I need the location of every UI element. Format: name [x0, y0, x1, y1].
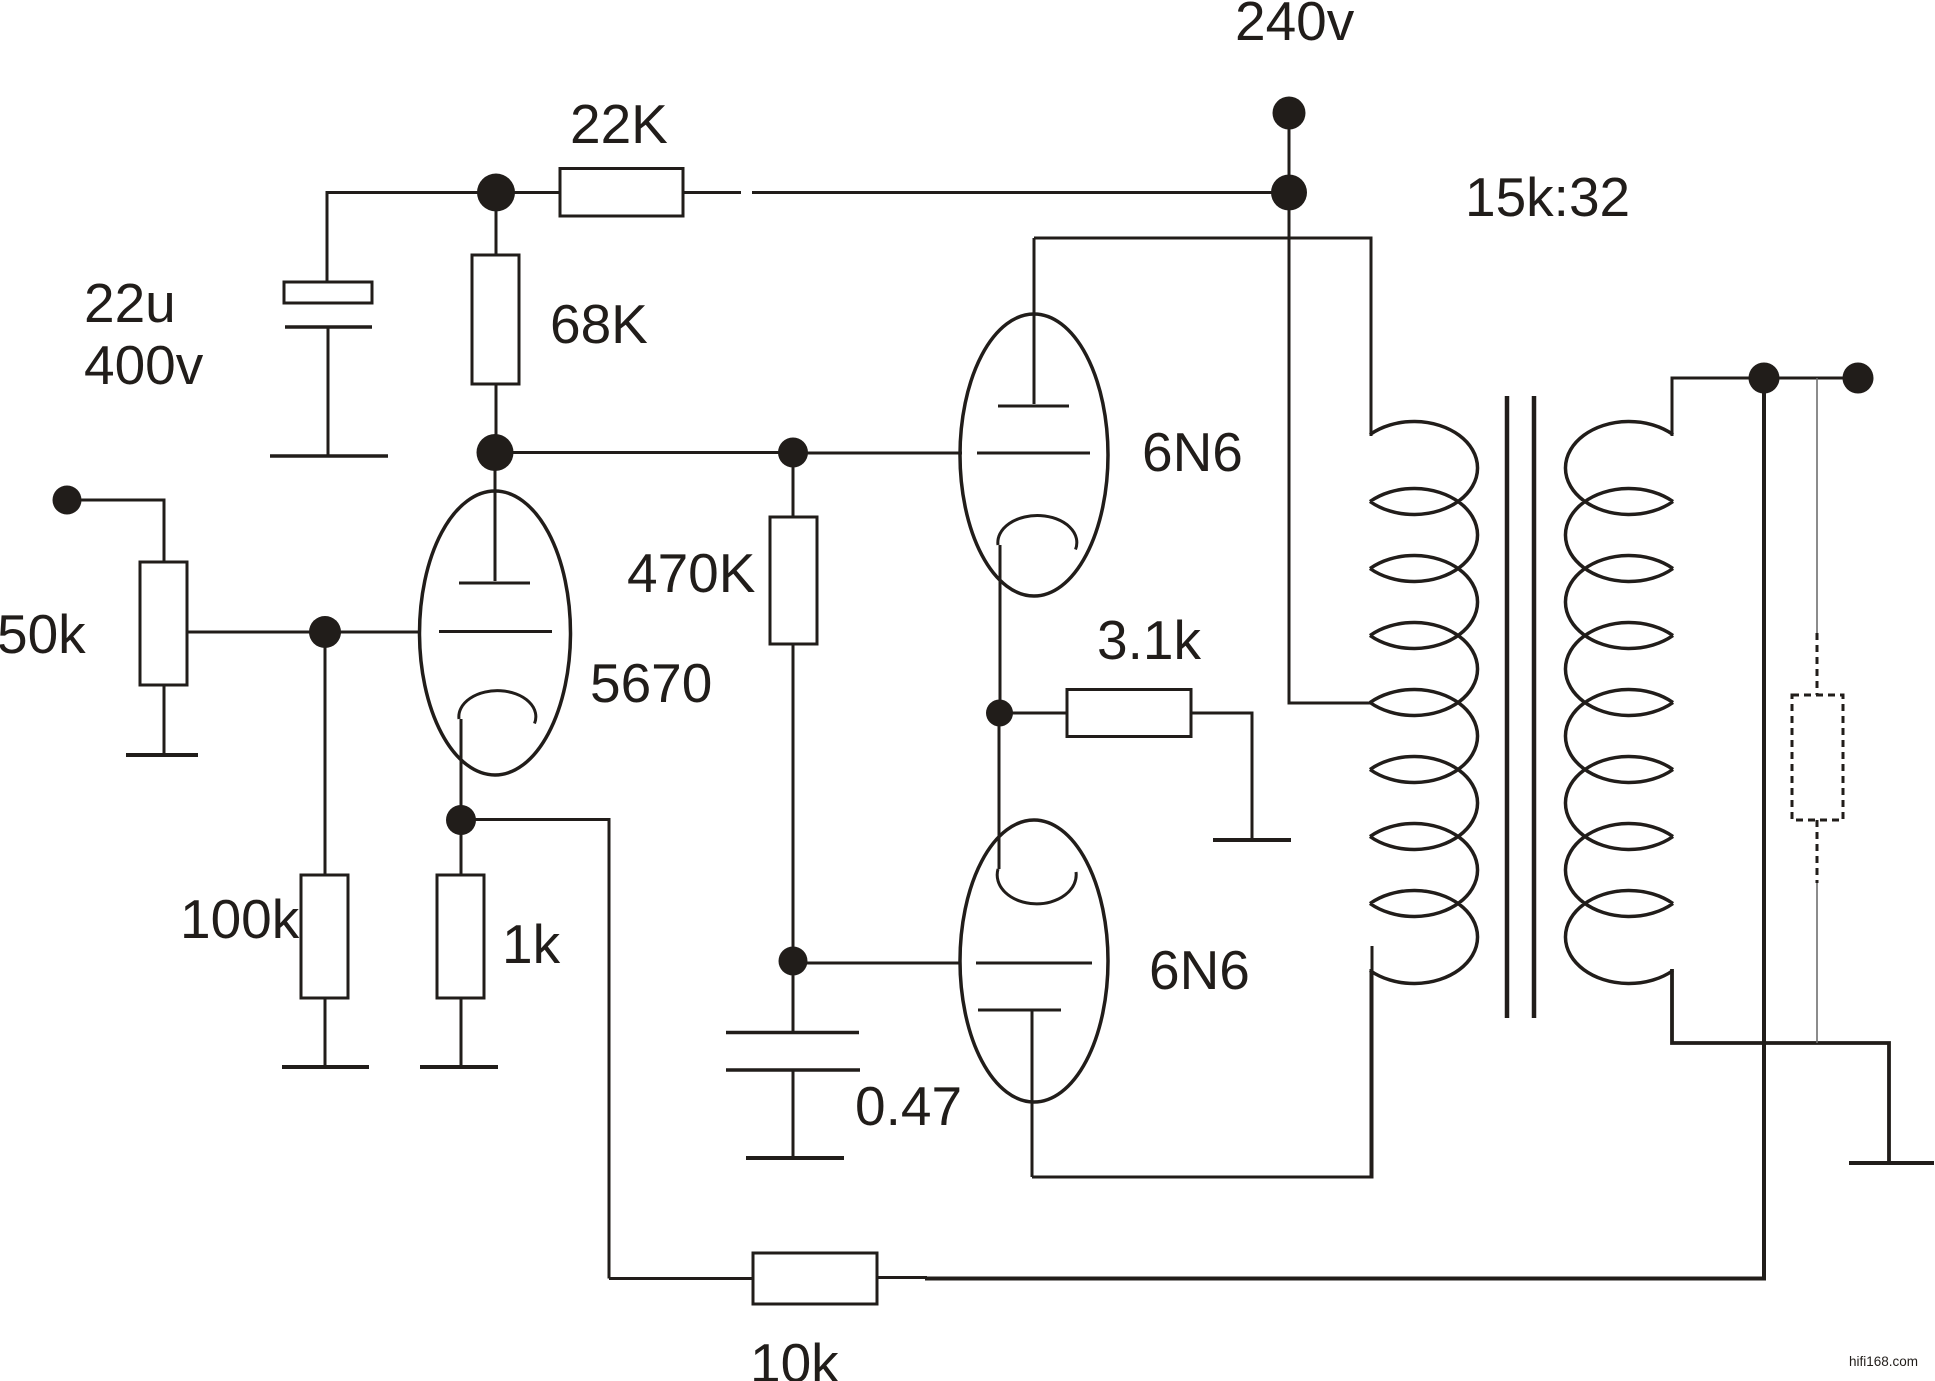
wire secondary top lead to output — [1672, 378, 1858, 436]
triode 6N6 upper cathode arc — [998, 516, 1077, 550]
transformer T1 primary winding — [1370, 422, 1478, 984]
triode 5670 plate lead — [494, 452, 497, 581]
wire 100k to ground — [324, 998, 327, 1065]
node HT (240v terminal dot) — [1273, 97, 1306, 130]
wire junction down to 68K — [495, 193, 498, 256]
wire cathode node to lower 6N6 cathode — [998, 713, 1001, 869]
triode 6N6 upper cathode lead — [999, 545, 1002, 713]
wire 240v terminal down — [1288, 113, 1291, 192]
node IN (input terminal dot) — [53, 486, 82, 515]
resistor 10k — [753, 1253, 877, 1304]
wire grid node down to 100k — [324, 632, 327, 875]
resistor 470K — [770, 517, 817, 644]
triode 6N6 lower plate bar — [978, 1009, 1061, 1012]
node P1 (5670 plate junction dot) — [477, 434, 514, 471]
svg-text:240v: 240v — [1235, 0, 1355, 52]
triode 5670 envelope — [420, 491, 571, 775]
triode 6N6 upper plate bar — [998, 405, 1069, 408]
load dashed resistor body — [1792, 695, 1843, 820]
triode 6N6 upper envelope — [960, 314, 1108, 596]
ground (3.1k bar) — [1213, 838, 1291, 842]
node G1 (5670 grid junction dot) — [309, 616, 341, 648]
svg-text:400v: 400v — [84, 334, 204, 396]
wire cathode node to 1k — [460, 820, 463, 875]
svg-text:15k:32: 15k:32 — [1465, 166, 1630, 228]
wire cathode node to 3.1k — [999, 712, 1067, 715]
triode 6N6 lower grid bar — [976, 962, 1092, 965]
wire cap bottom plate down — [327, 327, 330, 455]
capacitor 0.47 bottom plate — [726, 1068, 860, 1072]
node HT2 (240v rail junction dot) — [1271, 175, 1307, 211]
triode 6N6 lower plate lead — [1031, 1010, 1034, 1177]
wire 22K right segment with gap — [683, 191, 741, 194]
wire 10k to cathode branch — [609, 1277, 753, 1280]
transformer T1 core — [1505, 396, 1510, 1018]
load dashed lead lower — [1816, 820, 1819, 883]
svg-text:68K: 68K — [550, 293, 648, 355]
wire cathode node to feedback corner — [461, 820, 609, 1279]
svg-text:22u: 22u — [84, 272, 176, 334]
wire 1k to ground — [460, 998, 463, 1065]
capacitor 0.47 top plate — [726, 1031, 859, 1035]
resistor 1k — [437, 875, 484, 998]
wire secondary bottom lead to ground — [1672, 969, 1889, 1161]
load lower thin lead — [1816, 883, 1818, 1043]
ground (0.47 cap bar) — [746, 1156, 844, 1160]
node K1 (5670 cathode junction dot) — [446, 805, 476, 835]
resistor 22K — [560, 169, 683, 217]
wire 0.47 bottom plate down — [792, 1070, 795, 1157]
svg-text:1k: 1k — [502, 913, 561, 975]
triode 6N6 lower envelope — [960, 820, 1108, 1102]
transformer T1 secondary winding — [1565, 422, 1673, 984]
wire 470K node down — [792, 452, 795, 517]
triode 6N6 upper grid bar — [977, 452, 1090, 455]
svg-text:22K: 22K — [570, 93, 668, 155]
wire 68K to plate node — [495, 384, 498, 452]
ground (secondary) — [1849, 1161, 1934, 1165]
svg-text:5670: 5670 — [590, 652, 712, 714]
triode 5670 cathode lead — [460, 719, 463, 820]
triode 5670 grid bar — [439, 630, 552, 633]
resistor 3.1k — [1067, 690, 1191, 737]
svg-text:6N6: 6N6 — [1149, 939, 1250, 1001]
wire upper 6N6 plate to transformer — [1034, 238, 1371, 436]
wire 470K to lower grid node — [792, 644, 795, 961]
node B1 (22K/68K junction dot) — [477, 174, 515, 212]
svg-text:3.1k: 3.1k — [1097, 609, 1201, 671]
svg-text:10k: 10k — [750, 1332, 839, 1381]
triode 5670 plate bar — [459, 582, 530, 585]
wire 240v rail to transformer centre tap — [1289, 193, 1371, 704]
wire lower grid node to 6N6 grid — [793, 962, 961, 965]
load (dashed speaker resistor) upper thin lead — [1816, 378, 1818, 633]
ground (100k) — [282, 1065, 369, 1069]
capacitor 22u 400v top plate — [284, 282, 372, 303]
load dashed lead upper — [1816, 633, 1819, 695]
resistor 68K — [472, 255, 519, 384]
wire pot bottom to ground — [163, 685, 166, 753]
wire grid node to 5670 grid — [325, 631, 421, 634]
node OUT2 (output terminal dot) — [1843, 363, 1874, 394]
ground (22u cap bar) — [270, 454, 388, 458]
svg-text:50k: 50k — [0, 603, 86, 665]
triode 6N6 upper plate lead — [1033, 238, 1036, 404]
wire feedback from output down to 10k — [925, 378, 1764, 1279]
ground (pot) — [126, 753, 198, 757]
wire 470K node to 6N6 grid — [793, 452, 962, 455]
svg-text:470K: 470K — [627, 542, 756, 604]
svg-text:0.47: 0.47 — [855, 1075, 962, 1137]
svg-text:100k: 100k — [180, 888, 300, 950]
wire 10k right stub — [877, 1276, 927, 1279]
resistor 100k — [301, 875, 348, 998]
wire 22K to 240v rail — [752, 191, 1289, 194]
node K2 (upper 6N6 cathode junction dot) — [986, 700, 1013, 727]
svg-text:6N6: 6N6 — [1142, 421, 1243, 483]
node G2 (lower 6N6 grid junction dot) — [779, 947, 808, 976]
svg-text:hifi168.com: hifi168.com — [1849, 1354, 1918, 1369]
wire input dot to pot top — [67, 500, 164, 562]
capacitor 22u 400v bottom plate — [285, 325, 372, 329]
potentiometer 50k body — [140, 562, 187, 685]
wire primary bottom lead — [1370, 969, 1373, 1177]
triode 5670 cathode arc — [459, 691, 536, 724]
wire 3.1k to termination — [1191, 713, 1252, 839]
wire lower 6N6 plate to transformer bottom — [1032, 946, 1372, 1177]
node OUT1 (output junction dot) — [1749, 363, 1780, 394]
ground (1k) — [420, 1065, 498, 1069]
wire cap top plate to top rail — [326, 194, 329, 282]
wire lower grid node to 0.47 cap — [792, 961, 795, 1031]
triode 6N6 lower cathode arc — [997, 869, 1076, 904]
wire plate node to 470K node — [495, 451, 793, 454]
wire top rail left segment — [326, 191, 561, 194]
wire pot wiper to grid node — [187, 631, 325, 634]
node P2 (470K top junction dot) — [778, 438, 808, 468]
